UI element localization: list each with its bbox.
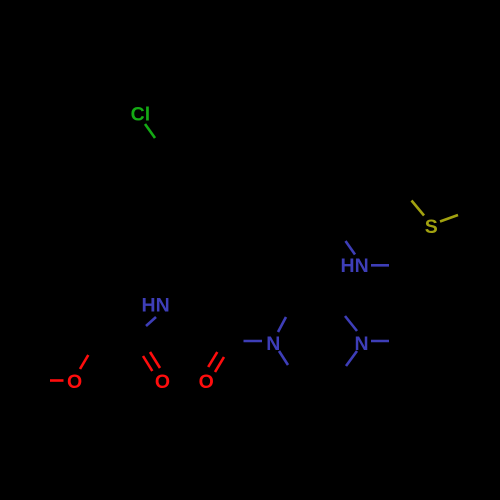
bond N2-C ring up-left (blue half-bond) bbox=[345, 316, 357, 331]
bond N2-CH2 right (blue half-bond) bbox=[371, 340, 389, 343]
bond HN-CH2 right (blue half-bond) bbox=[371, 264, 389, 267]
svg-text:S: S bbox=[425, 216, 438, 238]
bond O-CH2 up-right (red half-bond) bbox=[80, 355, 88, 369]
bond C=O left carbonyl double line 2 (red half-bond) bbox=[150, 352, 160, 368]
svg-text:O: O bbox=[199, 371, 214, 393]
bond S-CH3 (yellow half-bond right) bbox=[440, 215, 458, 222]
bond N1-C(=O) left (blue half-bond) bbox=[244, 340, 263, 343]
bond C=O left carbonyl double line 1 (red half-bond) bbox=[143, 356, 152, 371]
svg-text:O: O bbox=[155, 371, 170, 393]
bond O-CH3 left (red half-bond) bbox=[50, 379, 64, 382]
svg-text:O: O bbox=[67, 371, 82, 393]
bond Cl-C (green half-bond) bbox=[145, 124, 155, 138]
bond N1-C ring down-right (blue half-bond) bbox=[279, 351, 288, 365]
svg-text:HN: HN bbox=[142, 294, 170, 316]
bond N2-C ring down-left (blue half-bond) bbox=[346, 351, 357, 366]
bond NH-C(=O) down-left (blue half-bond) bbox=[146, 317, 156, 326]
bond C=O center carbonyl double line 1 (red half-bond) bbox=[208, 352, 217, 367]
bond C=O center carbonyl double line 2 (red half-bond) bbox=[215, 357, 224, 372]
svg-text:HN: HN bbox=[341, 255, 369, 277]
svg-text:Cl: Cl bbox=[131, 104, 151, 126]
bond N1-C ring up-right (blue half-bond) bbox=[278, 317, 286, 332]
bond HN-C up-left (blue half-bond) bbox=[346, 241, 356, 255]
bond S-CH2 (yellow half-bond up-left) bbox=[412, 201, 425, 216]
